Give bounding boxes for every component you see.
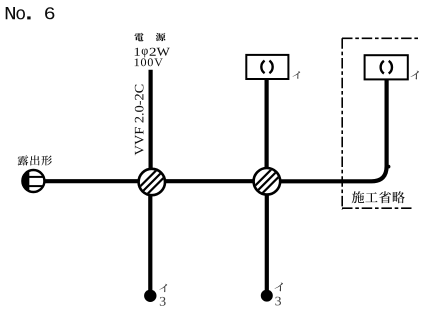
label イ at switch S1 (159, 284, 167, 292)
outlet inner horizontal line (upper) (28, 176, 44, 178)
cable label "VVF 2.0-2C" (135, 85, 144, 156)
rosette 2 ")" (389, 61, 392, 74)
text "1" of 1φ2W (135, 48, 140, 56)
filled left lune of outlet (23, 171, 29, 190)
rosette 1 ")" (269, 61, 272, 74)
text "W" of 1φ2W (157, 48, 170, 56)
label 源 (power source) (156, 33, 166, 41)
label 3 at switch S1 (3-way) (160, 297, 166, 306)
text "." of "No. 6" (27, 16, 30, 19)
text "o" of "No. 6" (16, 9, 25, 19)
label イ at ceiling rosette 1 (293, 71, 301, 79)
dashed boundary box 施工省略 (installation-omitted area), top edge (342, 37, 418, 39)
switch S1 (3-way) dot (144, 290, 156, 302)
text "6" of "No. 6" (45, 7, 54, 19)
junction box J1 (hatched circle) (136, 159, 168, 206)
wire: switch leg from J2 down to switch S2 (265, 181, 269, 291)
ceiling rosette 1 (square type, 引掛シーリング) box (246, 55, 288, 79)
label 施工省略 (installation omitted) (352, 191, 405, 203)
wire: horizontal run outlet -> J1 -> J2 (45, 179, 281, 183)
wire: ceiling rosette (middle) leg down to J2 (265, 79, 269, 181)
junction box J2 (hatched circle) (251, 158, 283, 205)
wire: switch leg from J1 down to switch S1 (148, 181, 152, 291)
dashed boundary box, bottom edge (342, 207, 412, 209)
rosette 2 "(" (381, 61, 384, 74)
text "φ" of 1φ2W (142, 49, 148, 58)
wire: J2 to right ceiling rosette (with rounded corner into omitted area) (280, 80, 387, 182)
switch S2 (3-way) dot (261, 290, 273, 302)
wire: power feed vertical (VVF 2.0-2C) into junction box J1 (149, 70, 153, 181)
label 電 (power source) (134, 33, 143, 41)
ceiling rosette 2 (in omitted area) box (365, 55, 408, 79)
junction nub on curve near rosette 2 wire (387, 165, 391, 169)
label イ at ceiling rosette 2 (411, 71, 420, 80)
text "2" of 1φ2W (150, 48, 156, 56)
rosette 1 "(" (261, 61, 264, 74)
exposed-type outlet (露出形コンセント) symbol (22, 170, 44, 192)
label 露出形 (exposed type) (18, 155, 52, 165)
label イ at switch S2 (275, 283, 283, 292)
dashed boundary box, left edge (341, 38, 343, 209)
text "N" of "No. 6" (6, 7, 15, 19)
label 3 at switch S2 (3-way) (275, 297, 281, 306)
outlet inner horizontal line (lower) (28, 185, 43, 187)
text "100V" (135, 58, 163, 66)
